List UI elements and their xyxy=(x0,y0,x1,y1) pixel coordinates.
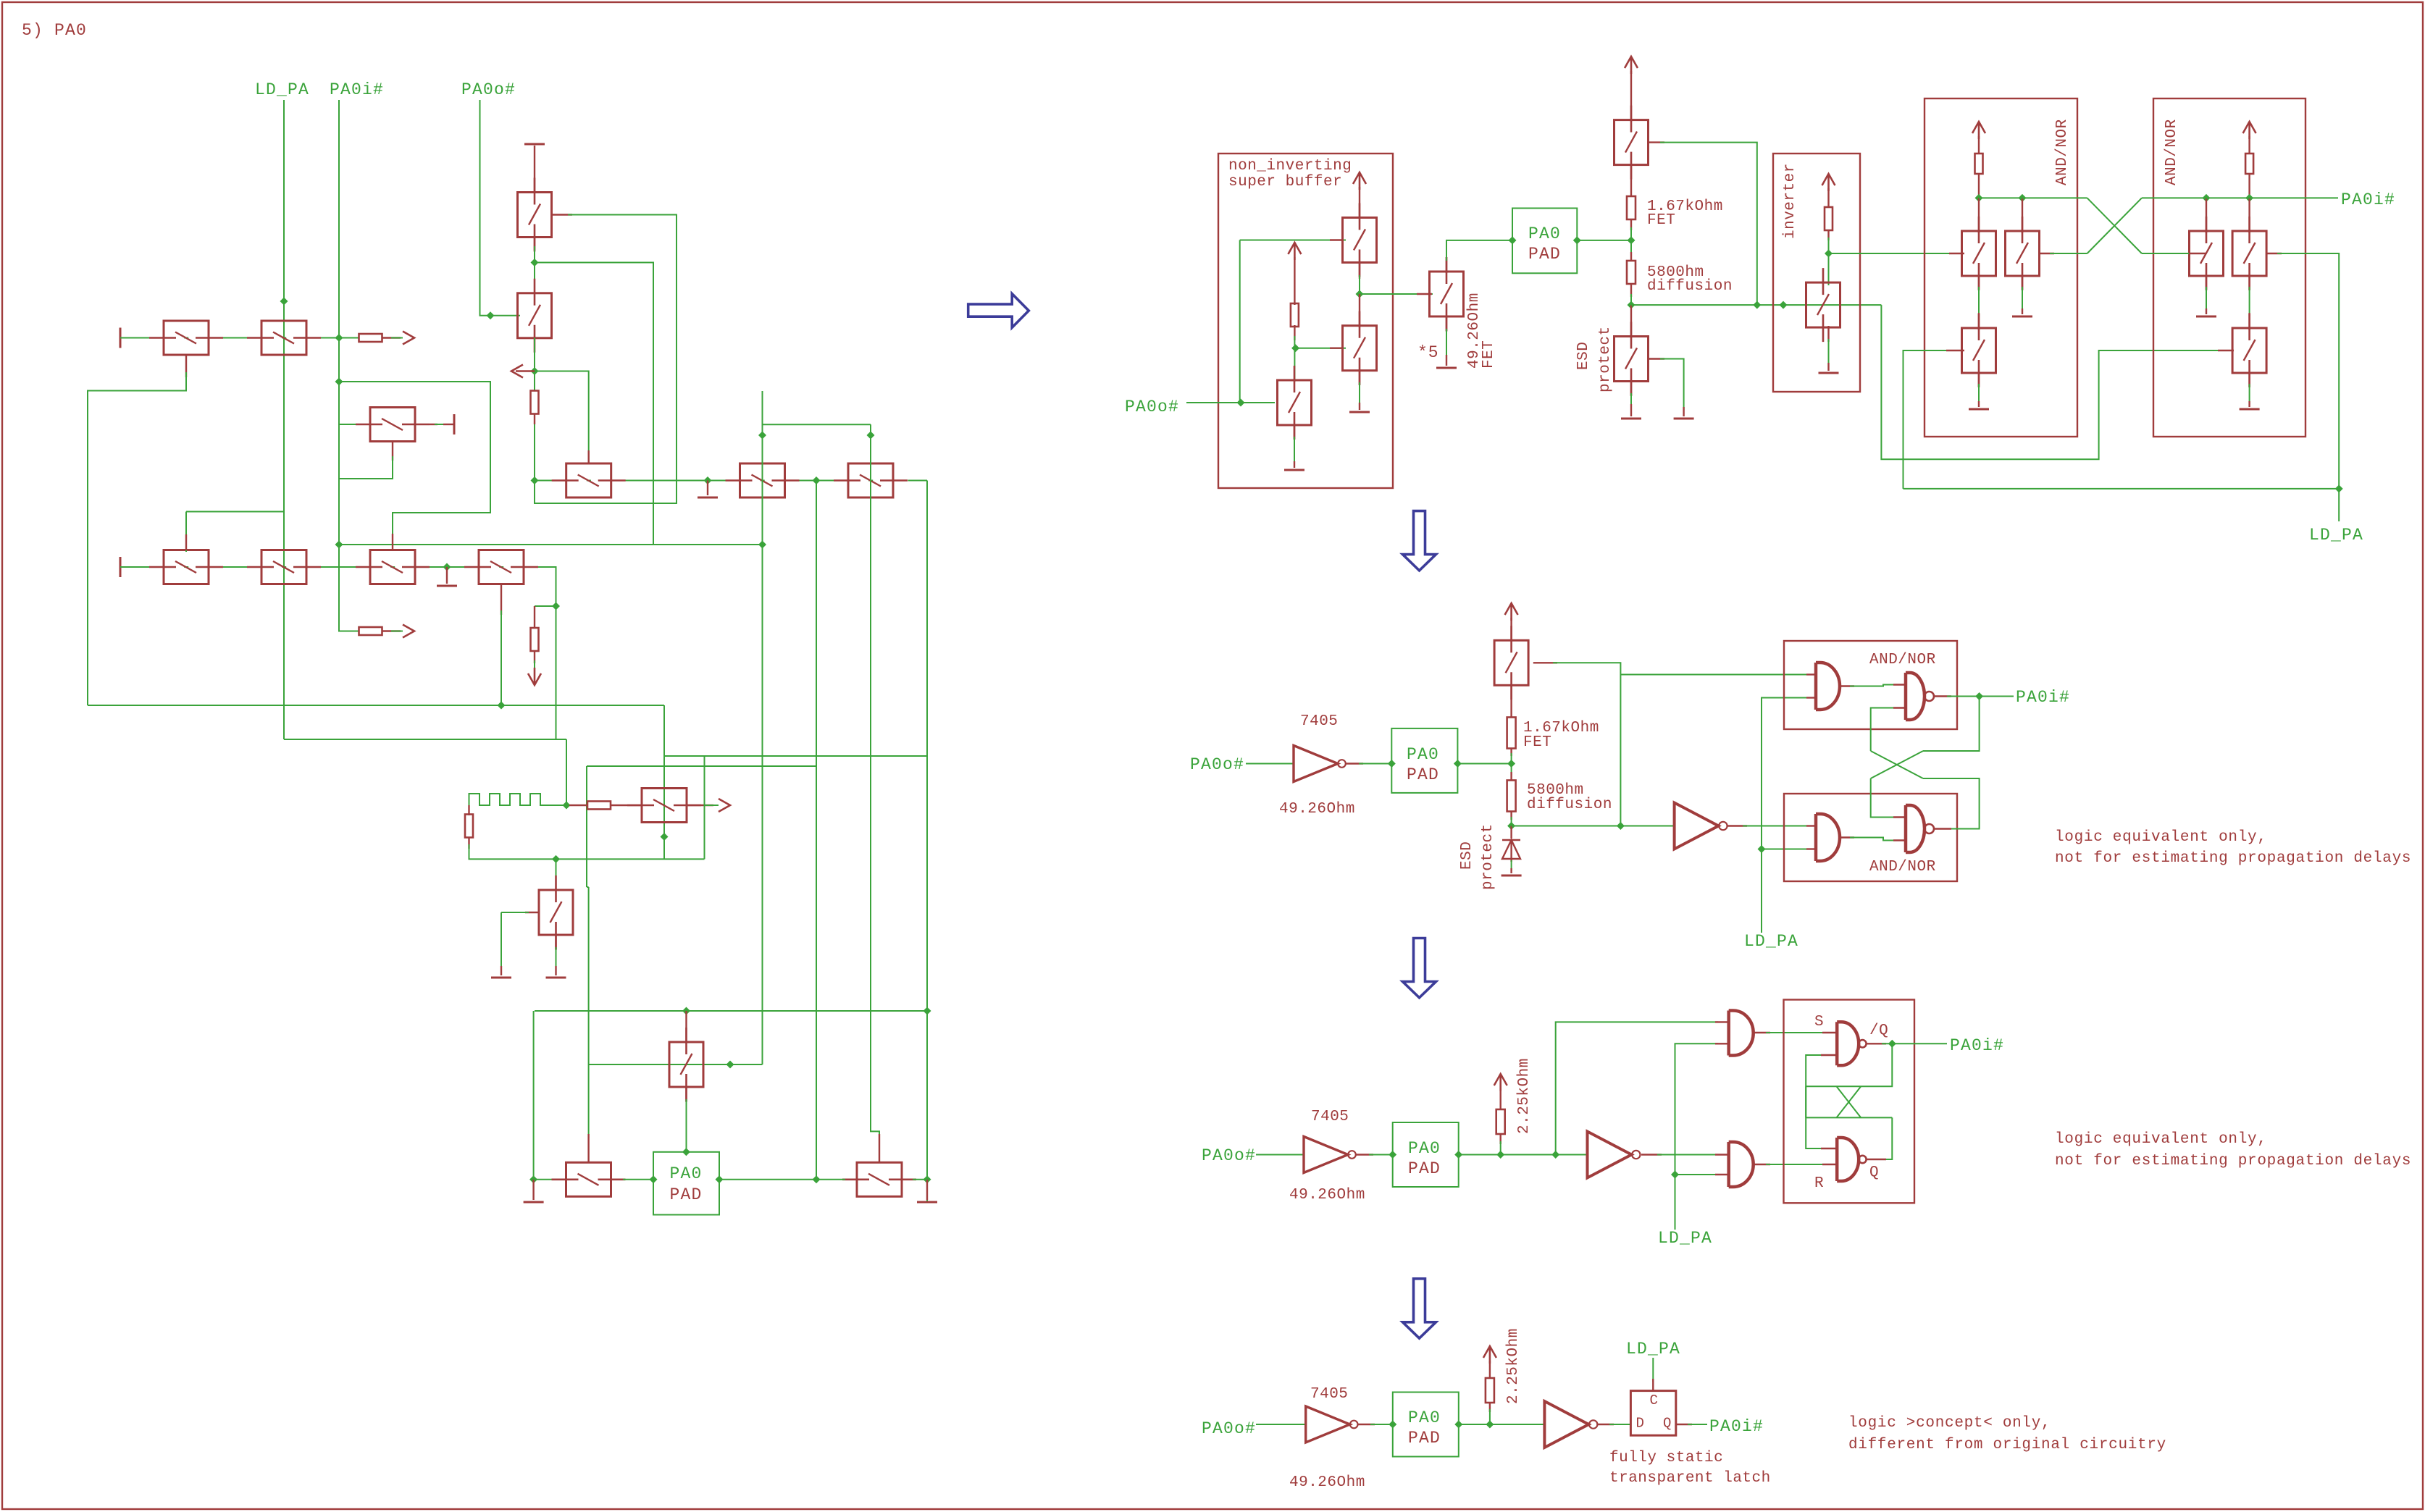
wire LD_PA R2 xyxy=(1762,698,1809,933)
junction diffusion node xyxy=(1628,301,1635,309)
wire Q16 right xyxy=(913,1179,927,1180)
inverter triangle R2 xyxy=(1675,803,1727,849)
wire diffusion H xyxy=(1631,304,1881,306)
wire QA-QT node xyxy=(1359,275,1360,297)
svg-text:FET: FET xyxy=(1523,734,1551,751)
ground QF xyxy=(1819,372,1839,374)
transistor QG2 xyxy=(2006,217,2040,290)
stub AND-S in1 xyxy=(1715,1021,1729,1022)
junction LD_PA R1 xyxy=(2335,484,2343,492)
junction row653 gnd xyxy=(704,476,712,484)
gate stub Q8 xyxy=(501,584,502,615)
junction PAD right xyxy=(716,1175,724,1183)
arrow down esd xyxy=(528,668,541,685)
transistor Q14 xyxy=(539,875,573,949)
wire AND-A to NAND-A xyxy=(1850,685,1896,686)
power arrow QD xyxy=(1625,56,1638,74)
stub NAND-A in1 xyxy=(1893,684,1906,685)
junction QI gate node xyxy=(1617,822,1625,830)
wire Rinv bottom xyxy=(1827,230,1829,240)
svg-text:PA0: PA0 xyxy=(670,1164,703,1183)
wire H2 xyxy=(284,739,566,740)
junction Q11 gate 752 xyxy=(758,541,766,549)
junction row2 gnd xyxy=(443,563,451,571)
wire R7 to node2 xyxy=(1630,284,1632,297)
wire R4 to Q13 xyxy=(611,805,642,806)
gnd stub QE gate xyxy=(1683,407,1684,416)
wire red R3-arrow xyxy=(382,630,401,631)
gate stub Q10 xyxy=(588,450,590,464)
PAD box R1 xyxy=(1512,209,1577,274)
junction pad H right xyxy=(923,1007,931,1015)
ground QT xyxy=(1349,411,1370,413)
wire LD_PA R4 xyxy=(1652,1358,1654,1382)
wire 7405 out R4 xyxy=(1357,1424,1375,1425)
svg-text:7405: 7405 xyxy=(1311,1109,1349,1125)
wire latch cross 1 xyxy=(1806,1043,1892,1086)
gate stub Q15 xyxy=(587,1134,589,1163)
super buffer box xyxy=(1218,154,1393,488)
resistor lower stub R2 xyxy=(534,413,535,424)
gate stub QH1 xyxy=(2189,253,2206,254)
wire QD to R6 xyxy=(1630,164,1632,196)
wire latch out green R4 xyxy=(1688,1424,1707,1425)
resistor 2.25k R3 xyxy=(1496,1109,1505,1134)
transistor QF (inverter) xyxy=(1806,268,1840,342)
wire H1 right drop xyxy=(663,705,665,859)
svg-text:PAD: PAD xyxy=(1407,765,1439,784)
wire QH series down xyxy=(2248,275,2250,290)
gate stub Q2 xyxy=(185,355,187,377)
resistor 2.25k R4 xyxy=(1486,1378,1494,1403)
wire QT bottom green xyxy=(1359,382,1360,406)
junction pad row left xyxy=(529,1175,537,1183)
wire power to Q3 xyxy=(534,146,535,193)
wire /Q out xyxy=(1867,1043,1886,1044)
svg-text:transparent latch: transparent latch xyxy=(1609,1470,1771,1487)
gnd stub row653 xyxy=(707,481,708,496)
wire H4 drop left xyxy=(586,766,587,887)
wire QT gate xyxy=(1296,348,1346,349)
ground pad left xyxy=(524,1201,544,1204)
wire power QI xyxy=(1510,618,1512,642)
wire Q3-Q4 xyxy=(534,237,535,251)
wire Q9 gate xyxy=(339,456,393,479)
gate stub Q5 xyxy=(185,534,187,550)
gate stub Q14 xyxy=(525,912,540,913)
wire tap to Q10 gate xyxy=(535,371,589,464)
wire QH gnd branch green xyxy=(2206,287,2207,311)
transistor Q8 xyxy=(464,550,538,584)
resistor R5 stub top xyxy=(468,805,469,815)
wire QH series red2 xyxy=(2248,313,2250,330)
blue arrow right xyxy=(968,294,1029,328)
svg-text:ESD: ESD xyxy=(1459,841,1475,870)
transistor QI pull-up R2 xyxy=(1494,626,1528,700)
wire to QH1 gate xyxy=(2142,253,2192,254)
wire PAD right H xyxy=(719,1179,845,1180)
transistor Q10 xyxy=(552,463,626,497)
svg-text:PA0i#: PA0i# xyxy=(1709,1417,1764,1436)
svg-text:not for estimating propagation: not for estimating propagation delays xyxy=(2055,850,2411,867)
junction Q3/Q4 node xyxy=(531,259,539,266)
wire Q5 gate drop xyxy=(185,512,187,553)
gate stub QG3 xyxy=(1946,350,1964,351)
wire Q3/Q4 node xyxy=(534,246,535,294)
resistor R7 580 xyxy=(1627,261,1635,284)
wire right out H PA0i# xyxy=(2142,197,2338,198)
svg-text:non_inverting: non_inverting xyxy=(1228,158,1352,175)
wire PA0i#-row to Q11 gate xyxy=(339,544,763,545)
junction PAD R4 right xyxy=(1454,1421,1462,1429)
wire QC bottom xyxy=(1446,316,1447,332)
wire Q11 gate vertical xyxy=(762,391,763,1064)
wire power QA xyxy=(1359,187,1360,219)
svg-text:49.26Ohm: 49.26Ohm xyxy=(1279,801,1355,818)
gnd stub QH3 xyxy=(2248,401,2250,407)
wire inv out R3 xyxy=(1641,1154,1662,1155)
wire node to QC gate xyxy=(1360,293,1433,295)
junction bottom H Q14 xyxy=(552,855,560,863)
wire node2 green R2 xyxy=(1511,817,1512,828)
wire green Q9 right xyxy=(435,424,445,425)
resistor Rsb xyxy=(1291,303,1299,327)
resistor R4 xyxy=(587,802,611,810)
gate stub QA xyxy=(1330,239,1344,240)
wire node vertical R2 xyxy=(1511,753,1512,775)
wire QH B top xyxy=(2206,198,2207,233)
wire H4-Q15 link xyxy=(587,886,589,888)
wire PA0o# in R1 xyxy=(1186,402,1275,403)
svg-text:Q: Q xyxy=(1869,1164,1879,1181)
wire Q17 gate H xyxy=(589,1064,763,1065)
inverter 7405 R2 xyxy=(1294,746,1346,782)
wire QT bottom xyxy=(1359,369,1360,385)
wire Q16 gate vertical xyxy=(871,503,879,1138)
junction PAD R1 right xyxy=(1573,236,1581,244)
junction LD_PA R3 xyxy=(1671,1171,1679,1179)
AND/NOR box left xyxy=(1924,98,2077,437)
wire power R4 xyxy=(1489,1361,1491,1378)
NAND gate A R2 xyxy=(1906,673,1934,720)
latch box R4 xyxy=(1630,1391,1675,1436)
svg-text:/Q: /Q xyxy=(1869,1022,1888,1039)
svg-text:D: D xyxy=(1636,1416,1645,1432)
wire QI to R6b xyxy=(1510,684,1512,717)
stub AND-R in2 xyxy=(1715,1174,1729,1175)
junction PAD R4 left xyxy=(1389,1421,1396,1429)
junction PA0i# R2 xyxy=(1975,692,1983,700)
svg-text:7405: 7405 xyxy=(1310,1386,1348,1403)
power arrow QA xyxy=(1353,172,1366,190)
inverter 7405 R3 xyxy=(1304,1137,1356,1173)
wire QG3 bottom green xyxy=(1978,384,1980,404)
svg-text:AND/NOR: AND/NOR xyxy=(2164,119,2180,185)
junction row1/PA0i# xyxy=(335,334,343,342)
wire inv out R4 xyxy=(1597,1424,1614,1425)
wire 7405 out R3 xyxy=(1356,1154,1373,1155)
svg-text:LD_PA: LD_PA xyxy=(1626,1340,1680,1358)
wire QE bottom xyxy=(1630,380,1632,396)
wire poly squiggle xyxy=(469,794,570,805)
gate stub QC xyxy=(1417,293,1432,295)
wire R node green R3 xyxy=(1500,1141,1502,1155)
svg-text:PAD: PAD xyxy=(1528,245,1561,264)
wire Q9 right xyxy=(430,424,437,425)
gate stub QT xyxy=(1330,348,1344,349)
wire QC bottom green xyxy=(1446,329,1447,358)
wire Q5 Q6 gates xyxy=(186,511,284,513)
wire QI gate xyxy=(1553,663,1620,826)
ground QH2 xyxy=(2196,316,2216,318)
inverter 7405 R4 xyxy=(1306,1406,1358,1442)
transistor Q17 xyxy=(669,1028,703,1101)
wire node2 to QE xyxy=(1630,305,1632,338)
junction QA/QT xyxy=(1356,290,1364,298)
gnd stub QG2 xyxy=(2022,308,2023,314)
junction out QH B xyxy=(2203,194,2211,202)
transistor QG3 xyxy=(1962,314,1996,387)
wire to PAD R2 xyxy=(1359,763,1394,765)
svg-text:R: R xyxy=(1814,1175,1824,1192)
gnd stub Q14 xyxy=(555,966,556,975)
wire X up xyxy=(2087,198,2142,253)
wire LD_PA to AND-B xyxy=(1762,849,1809,850)
wire Q out xyxy=(1867,1159,1886,1160)
wire pad row left H xyxy=(534,1179,569,1180)
gnd stub QB xyxy=(1294,461,1295,468)
wire QD gate xyxy=(1660,143,1757,306)
svg-text:Q: Q xyxy=(1663,1416,1672,1432)
svg-text:FET: FET xyxy=(1647,212,1675,229)
wire Q2 gate xyxy=(88,372,186,705)
wire esd branch red xyxy=(534,606,535,629)
wire PAD R1 to chain xyxy=(1577,240,1631,241)
transistor Q4 xyxy=(518,279,552,353)
wire Q14 top xyxy=(556,859,557,891)
junction PAD top xyxy=(682,1148,690,1156)
stub latch in upper2 xyxy=(1821,1148,1837,1149)
transistor Q1 (LD_PA gate) xyxy=(247,321,321,355)
svg-text:C: C xyxy=(1650,1393,1659,1408)
junction PA0i#/752 xyxy=(335,541,343,549)
ground QG3 xyxy=(1969,408,1989,411)
transistor QG1 xyxy=(1962,217,1996,290)
resistor R2 column xyxy=(531,391,539,414)
wire QC top xyxy=(1446,257,1447,273)
wire QG series green xyxy=(1978,287,1980,316)
gate stub QE xyxy=(1648,358,1664,359)
power tap above Q3 xyxy=(524,143,545,146)
wire Q8 right contact xyxy=(538,567,556,739)
svg-text:FET: FET xyxy=(1480,340,1497,369)
gnd stub QG3 xyxy=(1978,401,1980,407)
gate stub Q7 xyxy=(392,534,393,550)
svg-text:PA0o#: PA0o# xyxy=(461,80,516,99)
power tap row2 xyxy=(120,557,122,577)
junction node R2 xyxy=(1507,760,1515,768)
wire node H R2 xyxy=(1512,826,1675,827)
wire LD_PA R4 stub xyxy=(1652,1379,1654,1391)
junction inverter out xyxy=(1825,250,1833,258)
NAND gate B R2 xyxy=(1906,805,1934,852)
svg-text:7405: 7405 xyxy=(1300,713,1338,730)
wire AND-B to NAND-B xyxy=(1850,838,1896,841)
wire diffusion to QH3 gate xyxy=(1881,305,2221,459)
stub NAND-A in2 xyxy=(1893,707,1906,708)
junction bridge left xyxy=(758,432,766,440)
svg-text:protect: protect xyxy=(1597,326,1614,392)
wire PA0o# R3 xyxy=(1256,1154,1304,1156)
AND/NOR box upper R2 xyxy=(1784,641,1957,729)
wire left out H xyxy=(1979,197,2087,198)
wire cross up xyxy=(1871,708,1896,752)
wire R6 to node xyxy=(1630,219,1632,230)
junction pad row mid xyxy=(813,1175,821,1183)
transistor QH1 xyxy=(2232,217,2266,290)
wire red R1-arrow xyxy=(382,337,401,338)
wire QB bottom green xyxy=(1294,437,1295,464)
ground row653 xyxy=(698,497,718,499)
resistor R5 xyxy=(465,815,473,838)
transistor Q6 (LD_PA gate) xyxy=(247,550,321,584)
wire H3 xyxy=(664,755,927,757)
AND/NOR box right xyxy=(2153,98,2305,437)
wire cross down xyxy=(1923,697,1980,752)
transistor Q9 xyxy=(356,408,430,442)
power arrow Rsb xyxy=(1288,243,1301,260)
wire inv out green R4 xyxy=(1609,1424,1631,1425)
gnd stub QF xyxy=(1827,363,1829,371)
svg-text:LD_PA: LD_PA xyxy=(1658,1229,1712,1248)
wire power QD xyxy=(1630,71,1632,122)
power arrow inverter xyxy=(1822,174,1835,191)
junction R pull tap xyxy=(1496,1151,1504,1159)
wire squiggle to R4 xyxy=(569,805,587,806)
junction PAD R2 right xyxy=(1454,760,1462,768)
junction Q8 right drop xyxy=(552,602,560,610)
ground QG2 xyxy=(2012,316,2032,318)
wire right link bottom H xyxy=(704,756,705,859)
junction LD_PA above Q1 xyxy=(280,298,288,306)
wire Q17 to PAD top xyxy=(686,1099,687,1152)
wire Q3 gate to node xyxy=(535,215,677,504)
arrow out row1 xyxy=(403,332,414,345)
stub R input xyxy=(1822,1164,1837,1165)
AND/NOR box lower R2 xyxy=(1784,794,1957,881)
wire inv out to AND-B xyxy=(1743,826,1809,827)
gate stub Q3 xyxy=(552,214,573,215)
junction out QG B xyxy=(2019,194,2027,202)
svg-text:5) PA0: 5) PA0 xyxy=(22,21,87,40)
wire NAND-B out loop xyxy=(1923,778,1980,829)
svg-text:S: S xyxy=(1814,1014,1824,1030)
resistor Rinv xyxy=(1825,207,1833,230)
svg-text:PA0i#: PA0i# xyxy=(2341,190,2395,209)
ground row2 xyxy=(437,585,457,587)
wire R2 to row653 xyxy=(534,413,535,481)
wire AND-S out xyxy=(1754,1032,1770,1033)
wire H1-H2 link xyxy=(556,705,557,739)
junction QD gate node xyxy=(1753,301,1761,309)
wire PA0o# R4 xyxy=(1256,1424,1306,1425)
svg-text:PAD: PAD xyxy=(1408,1159,1441,1178)
arrow out pad row xyxy=(719,799,730,812)
svg-text:AND/NOR: AND/NOR xyxy=(2054,119,2071,185)
wire H1 xyxy=(88,705,664,706)
wire PA0i# vertical xyxy=(339,100,359,631)
gnd stub pad right xyxy=(926,1180,928,1200)
junction pad H Q17 xyxy=(682,1007,690,1015)
wire LD_PA vertical xyxy=(283,100,285,739)
wire R to node R4 xyxy=(1489,1403,1491,1412)
wire to left arrow xyxy=(516,370,535,371)
gate stub QH3 xyxy=(2218,350,2234,351)
ground Q14 xyxy=(546,977,566,979)
transistor Q12 xyxy=(834,463,908,497)
wire latch out R4 xyxy=(1676,1424,1692,1425)
wire latch cross 2 xyxy=(1806,1117,1892,1118)
wire PAD R4 to inv xyxy=(1459,1424,1545,1425)
AND gate S xyxy=(1729,1011,1754,1056)
wire green before arrow xyxy=(391,337,403,339)
wire inv out to AND-R xyxy=(1657,1154,1718,1156)
transistor Q2 xyxy=(149,321,223,355)
wire AND-A out xyxy=(1840,685,1854,686)
wire row1 xyxy=(120,337,359,339)
wire to PAD R4 xyxy=(1370,1424,1395,1425)
svg-text:*5: *5 xyxy=(1417,343,1439,362)
wire Rinv node xyxy=(1828,238,1830,255)
wire esd branch xyxy=(535,605,556,607)
wire cross down2 xyxy=(1871,778,1896,818)
junction PAD left xyxy=(650,1175,658,1183)
wire LD_PA to AND-R xyxy=(1675,1174,1719,1175)
svg-text:logic equivalent only,: logic equivalent only, xyxy=(2055,1131,2267,1148)
junction bridge right xyxy=(867,432,875,440)
wire latch X diag1 xyxy=(1837,1086,1861,1117)
wire QA gate xyxy=(1240,240,1346,241)
ground QH3 xyxy=(2240,408,2260,411)
junction LD_PA R2 xyxy=(1758,845,1766,853)
svg-text:fully static: fully static xyxy=(1609,1450,1723,1466)
stub AND-S in2 xyxy=(1715,1043,1729,1044)
wire power R3 xyxy=(1499,1088,1501,1109)
svg-text:PA0: PA0 xyxy=(1528,224,1561,243)
ground Q14 gate xyxy=(491,977,511,979)
wire LD_PA H R1 xyxy=(1903,488,2340,490)
power arrow cell QH xyxy=(2243,122,2256,139)
transistor QH2 xyxy=(2190,217,2224,290)
wire QG gnd branch green xyxy=(2022,287,2023,311)
wire Q9 to bar xyxy=(443,424,454,425)
junction row653 left xyxy=(531,476,539,484)
stub NAND-B in1 xyxy=(1893,816,1906,818)
wire Rsb bottom xyxy=(1294,325,1295,340)
gate stub Q9 xyxy=(392,442,393,461)
wire QG series red2 xyxy=(1978,313,1980,330)
transistor Q15 xyxy=(552,1162,626,1196)
wire R7b to node2 xyxy=(1510,812,1512,820)
wire QE gate xyxy=(1660,359,1684,411)
power arrow R3 xyxy=(1494,1074,1507,1091)
junction arrow tap xyxy=(531,367,539,375)
wire inverter out H xyxy=(1829,253,1953,254)
wire R to node R3 xyxy=(1499,1134,1501,1144)
wire Q12 right vertical xyxy=(926,481,928,1203)
wire row653 xyxy=(535,480,881,482)
resistor R6b xyxy=(1507,718,1516,749)
